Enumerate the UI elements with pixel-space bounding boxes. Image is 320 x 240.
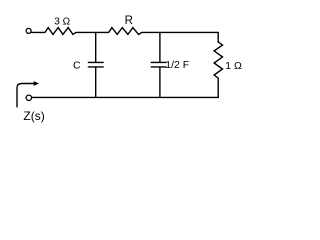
svg-text:1/2 F: 1/2 F [165, 59, 189, 71]
svg-text:1 Ω: 1 Ω [225, 60, 242, 72]
svg-text:Z(s): Z(s) [23, 109, 44, 123]
svg-text:R: R [125, 15, 133, 27]
svg-text:C: C [73, 59, 81, 71]
svg-text:3 Ω: 3 Ω [54, 16, 70, 27]
